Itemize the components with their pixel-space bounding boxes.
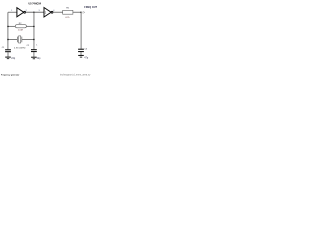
wire crystal row left lead	[8, 38, 17, 40]
svg-text:FREQ OUT: FREQ OUT	[84, 7, 97, 9]
FREQ OUT terminal arrow	[81, 11, 85, 13]
wire output vertical to C3	[80, 12, 82, 48]
output node junction	[80, 12, 82, 14]
svg-text:22p: 22p	[37, 58, 42, 60]
inverter U1A	[17, 8, 26, 17]
ground G3	[78, 55, 84, 57]
svg-text:R1: R1	[66, 8, 70, 10]
svg-text:4.9152MHz: 4.9152MHz	[14, 48, 26, 50]
capacitor C3	[78, 49, 84, 51]
svg-text:techsupport.d_emm_area.xy: techsupport.d_emm_area.xy	[60, 73, 91, 76]
wire R1 to output node	[73, 11, 81, 13]
wire U1A output to U1B input	[26, 11, 45, 13]
inverter U1B	[44, 8, 53, 18]
wire C2 to ground	[33, 52, 35, 57]
wire row2 left lead	[8, 25, 15, 27]
svg-text:C3: C3	[85, 49, 88, 51]
ground G2	[31, 57, 37, 59]
svg-text:Frequency generator: Frequency generator	[1, 74, 20, 77]
capacitor C1	[5, 50, 11, 52]
svg-text:4.7k: 4.7k	[65, 17, 70, 19]
junction crystal row right	[33, 39, 35, 41]
svg-text:C1: C1	[2, 47, 5, 49]
junction row2 right	[33, 26, 35, 28]
crystal Y1	[17, 36, 22, 43]
wire U1B output to R1	[53, 11, 63, 13]
wire C1 to ground	[7, 52, 9, 57]
svg-text:3: 3	[39, 10, 41, 12]
wire top rail input segment	[8, 11, 17, 13]
resistor R1	[63, 10, 73, 14]
wire C3 to ground	[80, 52, 82, 55]
ground G1	[5, 57, 11, 59]
capacitor C2	[31, 50, 37, 52]
svg-text:1: 1	[36, 45, 38, 47]
svg-text:U5 74HC04: U5 74HC04	[29, 2, 42, 5]
junction row2 left	[7, 26, 9, 28]
wire crystal row right lead	[22, 38, 34, 40]
resistor R2 feedback	[15, 25, 26, 28]
wire row2 right lead	[26, 25, 34, 27]
svg-text:22p: 22p	[11, 58, 16, 60]
wire mid feedback vertical	[33, 12, 35, 49]
junction crystal row left	[7, 39, 9, 41]
node B junction on top rail	[33, 11, 35, 13]
svg-text:1.0M: 1.0M	[18, 30, 23, 32]
svg-text:47p: 47p	[84, 58, 89, 60]
svg-text:C2: C2	[27, 45, 30, 47]
wire left feedback vertical	[7, 12, 9, 49]
